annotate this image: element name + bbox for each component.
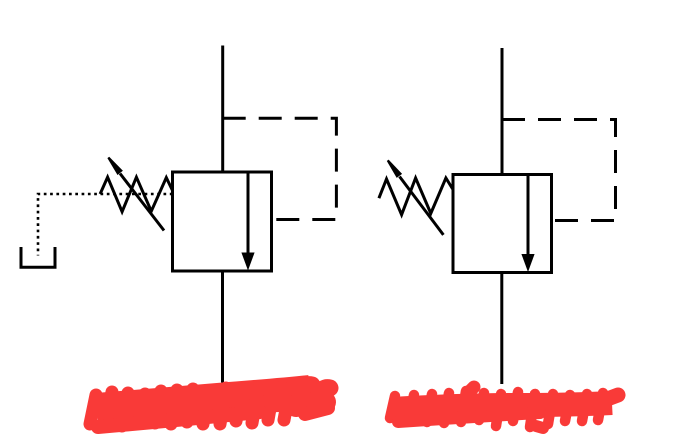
valve V1 adjustment arrow — [107, 157, 164, 231]
valve V2 adjustment arrow — [387, 160, 444, 235]
valve V1 spring — [100, 177, 172, 212]
relief valve V1 body — [173, 172, 272, 271]
valve V1 inlet line P — [221, 46, 224, 173]
valve V1 flow path arrow — [241, 172, 254, 271]
relief valve V2 body — [453, 175, 552, 273]
valve V2 inlet line P — [501, 48, 504, 175]
tank symbol — [21, 247, 55, 267]
red scribble left (redacted caption) — [90, 385, 330, 427]
valve V2 spring — [379, 178, 453, 215]
red scribble right (redacted caption) — [390, 387, 618, 428]
valve V1 drain line (dotted) — [38, 194, 173, 256]
valve V1 pilot line (dashed) — [223, 118, 337, 219]
valve V1 outlet line T — [221, 271, 224, 383]
valve V2 pilot line (dashed) — [502, 120, 616, 221]
valve V2 flow path arrow — [521, 175, 534, 273]
valve V2 outlet line T — [500, 273, 503, 385]
